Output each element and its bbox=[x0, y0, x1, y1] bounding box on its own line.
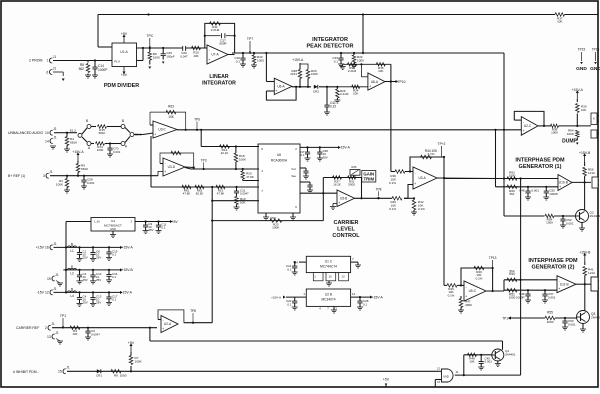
svg-text:-15V-A: -15V-A bbox=[122, 291, 133, 295]
svg-text:25V: 25V bbox=[96, 300, 101, 304]
svg-text:B: B bbox=[122, 119, 124, 123]
svg-text:+15V-A: +15V-A bbox=[372, 295, 384, 299]
svg-text:U8-A: U8-A bbox=[371, 80, 379, 84]
svg-text:# INHIBIT PDM -: # INHIBIT PDM - bbox=[13, 370, 39, 374]
svg-text:MC74HC74: MC74HC74 bbox=[320, 265, 337, 269]
svg-text:13: 13 bbox=[341, 275, 345, 279]
svg-text:2.21M: 2.21M bbox=[348, 69, 357, 73]
svg-text:10K: 10K bbox=[353, 91, 358, 95]
svg-text:0.1%: 0.1% bbox=[389, 181, 396, 185]
svg-text:MC7805ACT: MC7805ACT bbox=[104, 224, 122, 228]
svg-text:+15V: +15V bbox=[36, 246, 45, 250]
svg-text:0.001: 0.001 bbox=[87, 181, 95, 185]
svg-text:C48: C48 bbox=[519, 189, 525, 193]
svg-text:U5-B: U5-B bbox=[340, 196, 347, 200]
svg-text:J1: J1 bbox=[53, 242, 57, 246]
svg-text:0.1%: 0.1% bbox=[418, 207, 425, 211]
svg-text:+: + bbox=[338, 201, 340, 205]
svg-text:INTEGRATOR: INTEGRATOR bbox=[202, 81, 236, 87]
svg-text:+: + bbox=[162, 327, 164, 331]
svg-text:U6: U6 bbox=[277, 153, 281, 157]
svg-text:25V: 25V bbox=[96, 255, 101, 259]
svg-text:1000P: 1000P bbox=[549, 192, 558, 196]
svg-text:GND: GND bbox=[110, 227, 116, 231]
svg-text:16: 16 bbox=[45, 246, 49, 250]
svg-text:+15V-A: +15V-A bbox=[122, 246, 134, 250]
svg-text:0.1%: 0.1% bbox=[428, 152, 435, 156]
svg-text:GAIN: GAIN bbox=[363, 171, 374, 176]
svg-text:25V: 25V bbox=[96, 278, 101, 282]
svg-text:15: 15 bbox=[58, 370, 62, 374]
svg-text:+: + bbox=[559, 185, 561, 189]
svg-text:TP+2: TP+2 bbox=[438, 142, 446, 146]
svg-text:1000: 1000 bbox=[551, 131, 558, 135]
svg-text:J1: J1 bbox=[53, 135, 57, 139]
svg-text:47.8K: 47.8K bbox=[217, 192, 225, 196]
svg-text:1000: 1000 bbox=[546, 221, 553, 225]
svg-text:U5-C: U5-C bbox=[469, 289, 477, 293]
svg-text:1000P: 1000P bbox=[98, 68, 107, 72]
svg-text:+: + bbox=[558, 287, 560, 291]
svg-text:TPC: TPC bbox=[146, 34, 153, 38]
svg-text:U2-A: U2-A bbox=[164, 322, 172, 326]
svg-text:Vcc: Vcc bbox=[291, 167, 296, 171]
svg-text:47.8K: 47.8K bbox=[246, 175, 254, 179]
svg-text:1000: 1000 bbox=[311, 72, 318, 76]
svg-text:DUMP: DUMP bbox=[562, 139, 577, 145]
svg-text:0.1%: 0.1% bbox=[476, 276, 483, 280]
svg-text:2 PROM: 2 PROM bbox=[29, 59, 43, 63]
svg-text:+15V-A: +15V-A bbox=[72, 150, 84, 154]
svg-text:+5V: +5V bbox=[121, 32, 128, 36]
svg-text:10: 10 bbox=[45, 131, 49, 135]
svg-text:681K: 681K bbox=[70, 140, 77, 144]
svg-text:INTERPHASE PDM: INTERPHASE PDM bbox=[528, 258, 578, 264]
svg-text:25V: 25V bbox=[83, 300, 88, 304]
svg-text:2N4401: 2N4401 bbox=[505, 353, 516, 357]
svg-text:0.1: 0.1 bbox=[112, 275, 116, 279]
svg-text:+: + bbox=[208, 58, 210, 62]
svg-text:2N4403: 2N4403 bbox=[591, 316, 600, 320]
svg-text:100pF: 100pF bbox=[166, 54, 174, 58]
svg-text:+15V-A: +15V-A bbox=[271, 296, 281, 300]
svg-text:INTEGRATOR: INTEGRATOR bbox=[312, 37, 348, 43]
svg-text:LINEAR: LINEAR bbox=[209, 74, 229, 80]
svg-text:J1: J1 bbox=[53, 66, 57, 70]
svg-text:GND: GND bbox=[590, 66, 600, 72]
svg-text:4990: 4990 bbox=[465, 303, 472, 307]
svg-text:CARRIER: CARRIER bbox=[333, 220, 358, 226]
svg-text:0.1: 0.1 bbox=[161, 226, 165, 230]
svg-text:0.1%: 0.1% bbox=[389, 207, 396, 211]
svg-text:0.1: 0.1 bbox=[112, 252, 116, 256]
svg-text:U3-A: U3-A bbox=[418, 176, 426, 180]
svg-text:R63: R63 bbox=[168, 105, 174, 109]
svg-text:2N4403: 2N4403 bbox=[590, 214, 600, 218]
svg-text:+5V: +5V bbox=[121, 73, 128, 77]
svg-text:1210: 1210 bbox=[588, 271, 595, 275]
svg-text:16.2K: 16.2K bbox=[333, 183, 341, 187]
svg-text:1000: 1000 bbox=[153, 56, 160, 60]
svg-text:7: 7 bbox=[352, 257, 354, 261]
svg-text:+5V: +5V bbox=[128, 341, 135, 345]
svg-text:1210: 1210 bbox=[588, 171, 595, 175]
svg-text:1000: 1000 bbox=[120, 374, 127, 378]
svg-text:13: 13 bbox=[47, 335, 51, 339]
svg-text:5000: 5000 bbox=[348, 183, 355, 187]
svg-text:1000: 1000 bbox=[547, 320, 554, 324]
svg-text:10K: 10K bbox=[581, 108, 586, 112]
svg-text:+15V-B: +15V-B bbox=[579, 251, 591, 255]
svg-text:2151: 2151 bbox=[290, 72, 297, 76]
svg-text:TP13: TP13 bbox=[489, 256, 497, 260]
svg-text:L4: L4 bbox=[70, 294, 74, 298]
svg-text:0.1%: 0.1% bbox=[448, 293, 455, 297]
svg-text:0.001: 0.001 bbox=[568, 322, 576, 326]
svg-text:R55: R55 bbox=[547, 311, 553, 315]
svg-text:10K: 10K bbox=[72, 332, 77, 336]
svg-text:U3-D: U3-D bbox=[168, 165, 176, 169]
svg-text:TP6: TP6 bbox=[194, 118, 200, 122]
svg-text:1000: 1000 bbox=[257, 59, 264, 63]
svg-text:19: 19 bbox=[47, 277, 51, 281]
svg-text:6: 6 bbox=[46, 70, 48, 74]
svg-text:U4: U4 bbox=[111, 219, 115, 223]
svg-text:PL4: PL4 bbox=[114, 60, 120, 64]
svg-text:U1-A: U1-A bbox=[120, 50, 128, 54]
svg-text:+15V-A: +15V-A bbox=[292, 58, 304, 62]
svg-text:2.21M: 2.21M bbox=[211, 28, 220, 32]
svg-text:GND: GND bbox=[576, 66, 587, 72]
svg-text:0.1: 0.1 bbox=[363, 302, 367, 306]
svg-text:-15V-A: -15V-A bbox=[340, 146, 351, 150]
svg-text:22.1K: 22.1K bbox=[221, 151, 229, 155]
svg-text:14: 14 bbox=[45, 139, 49, 143]
svg-text:2.21M: 2.21M bbox=[340, 92, 349, 96]
svg-text:+: + bbox=[465, 295, 467, 299]
svg-text:U2 B: U2 B bbox=[325, 293, 332, 297]
svg-text:+15V-A: +15V-A bbox=[572, 88, 584, 92]
svg-text:B: B bbox=[71, 264, 73, 268]
svg-text:U2-C: U2-C bbox=[524, 124, 532, 128]
svg-text:L2: L2 bbox=[70, 272, 74, 276]
svg-text:10K: 10K bbox=[469, 360, 474, 364]
svg-text:R25: R25 bbox=[352, 165, 357, 169]
svg-text:10K: 10K bbox=[168, 115, 174, 119]
svg-text:12: 12 bbox=[45, 291, 49, 295]
svg-text:TP7: TP7 bbox=[247, 37, 253, 41]
svg-text:+: + bbox=[275, 89, 277, 93]
svg-text:0.001: 0.001 bbox=[532, 189, 540, 193]
svg-text:B: B bbox=[86, 119, 88, 123]
svg-text:J1: J1 bbox=[49, 170, 53, 174]
svg-text:TP15: TP15 bbox=[578, 48, 586, 52]
svg-text:562: 562 bbox=[510, 269, 515, 273]
svg-text:0.1: 0.1 bbox=[112, 297, 116, 301]
svg-text:PDM DIVIDER: PDM DIVIDER bbox=[104, 83, 139, 89]
svg-text:0.1: 0.1 bbox=[287, 302, 291, 306]
svg-text:CONTROL: CONTROL bbox=[332, 233, 360, 239]
svg-text:10K: 10K bbox=[557, 20, 562, 24]
svg-text:7: 7 bbox=[46, 59, 48, 63]
svg-text:47.8K: 47.8K bbox=[183, 192, 191, 196]
svg-text:K: K bbox=[593, 117, 595, 121]
svg-text:GENERATOR (2): GENERATOR (2) bbox=[532, 265, 575, 271]
svg-text:3: 3 bbox=[43, 174, 45, 178]
svg-text:U3-C: U3-C bbox=[158, 128, 166, 132]
svg-text:CR2: CR2 bbox=[313, 89, 319, 93]
svg-text:TP1: TP1 bbox=[60, 314, 66, 318]
svg-text:100K: 100K bbox=[239, 158, 246, 162]
svg-text:CARRIER REF: CARRIER REF bbox=[16, 326, 39, 330]
svg-text:PEAK DETECTOR: PEAK DETECTOR bbox=[307, 44, 354, 50]
svg-text:TP3: TP3 bbox=[201, 159, 207, 163]
svg-text:0.001: 0.001 bbox=[566, 221, 574, 225]
svg-text:500P: 500P bbox=[219, 42, 226, 46]
svg-text:TP16: TP16 bbox=[592, 48, 600, 52]
svg-text:J1: J1 bbox=[53, 55, 57, 59]
svg-text:+: + bbox=[164, 170, 166, 174]
svg-text:-15V: -15V bbox=[37, 291, 45, 295]
svg-text:U7-A: U7-A bbox=[211, 53, 219, 57]
svg-text:1000: 1000 bbox=[357, 59, 364, 63]
svg-text:1000: 1000 bbox=[97, 148, 104, 152]
svg-text:J1: J1 bbox=[53, 287, 57, 291]
svg-text:MC34074: MC34074 bbox=[321, 298, 335, 302]
svg-text:CR1: CR1 bbox=[96, 374, 102, 378]
svg-text:J1: J1 bbox=[51, 322, 55, 326]
svg-text:+15V-B: +15V-B bbox=[122, 268, 134, 272]
svg-text:E1.2: E1.2 bbox=[70, 129, 77, 133]
svg-text:TRIM: TRIM bbox=[364, 177, 375, 182]
svg-text:L1: L1 bbox=[70, 249, 74, 253]
svg-text:J1: J1 bbox=[55, 273, 59, 277]
svg-text:10K: 10K bbox=[193, 54, 198, 58]
svg-text:100K: 100K bbox=[56, 182, 63, 186]
svg-text:B: B bbox=[71, 242, 73, 246]
svg-text:J1: J1 bbox=[66, 366, 70, 370]
svg-text:562: 562 bbox=[79, 67, 85, 71]
svg-text:U1 C: U1 C bbox=[325, 260, 333, 264]
svg-text:100K: 100K bbox=[272, 226, 280, 230]
svg-text:B: B bbox=[71, 287, 73, 291]
svg-text:UNBALANCED AUDIO: UNBALANCED AUDIO bbox=[8, 131, 43, 135]
svg-text:B+ REF (1): B+ REF (1) bbox=[8, 174, 25, 178]
svg-text:+: + bbox=[414, 182, 416, 186]
svg-text:RCA3000A: RCA3000A bbox=[271, 159, 288, 163]
svg-text:0.1: 0.1 bbox=[334, 60, 339, 64]
svg-text:TP8: TP8 bbox=[376, 187, 382, 191]
svg-text:U11-B: U11-B bbox=[560, 282, 569, 286]
svg-text:INTERPHASE PDM: INTERPHASE PDM bbox=[515, 158, 565, 164]
svg-text:0.001: 0.001 bbox=[548, 295, 556, 299]
svg-text:1000: 1000 bbox=[509, 295, 516, 299]
svg-text:LEVEL: LEVEL bbox=[337, 227, 355, 233]
svg-text:0.1: 0.1 bbox=[236, 60, 241, 64]
svg-text:1_IN: 1_IN bbox=[94, 220, 100, 224]
svg-text:0.1: 0.1 bbox=[300, 153, 304, 157]
svg-text:TP10: TP10 bbox=[398, 80, 406, 84]
svg-text:0.0047: 0.0047 bbox=[91, 332, 100, 336]
svg-text:100K: 100K bbox=[135, 359, 142, 363]
svg-text:J1: J1 bbox=[55, 331, 59, 335]
svg-text:Vee: Vee bbox=[291, 174, 296, 178]
svg-text:+: + bbox=[522, 129, 524, 133]
svg-text:TP8: TP8 bbox=[190, 309, 196, 313]
svg-text:681K: 681K bbox=[99, 131, 106, 135]
svg-text:GENERATOR (1): GENERATOR (1) bbox=[519, 164, 562, 170]
svg-text:681K: 681K bbox=[81, 167, 88, 171]
svg-text:1000: 1000 bbox=[509, 174, 516, 178]
svg-text:+5V: +5V bbox=[383, 378, 390, 382]
svg-text:+: + bbox=[369, 84, 371, 88]
svg-text:562: 562 bbox=[510, 192, 515, 196]
svg-text:0.047: 0.047 bbox=[180, 54, 188, 58]
svg-text:+5V: +5V bbox=[172, 220, 179, 224]
svg-text:25V: 25V bbox=[83, 278, 88, 282]
svg-text:35V: 35V bbox=[148, 228, 153, 232]
svg-text:R6: R6 bbox=[114, 374, 118, 378]
svg-text:2: 2 bbox=[45, 326, 47, 330]
svg-text:1000: 1000 bbox=[567, 132, 574, 136]
svg-text:35V: 35V bbox=[323, 155, 328, 159]
svg-text:10K: 10K bbox=[378, 69, 383, 73]
svg-text:0.001: 0.001 bbox=[485, 360, 493, 364]
svg-text:0.0047: 0.0047 bbox=[240, 192, 249, 196]
svg-text:J1: J1 bbox=[53, 127, 57, 131]
svg-text:+: + bbox=[154, 132, 156, 136]
svg-text:10: 10 bbox=[328, 275, 332, 279]
svg-text:0.22: 0.22 bbox=[330, 105, 336, 109]
svg-text:U6-A: U6-A bbox=[277, 85, 285, 89]
svg-text:25V: 25V bbox=[83, 255, 88, 259]
svg-text:0.001: 0.001 bbox=[113, 150, 121, 154]
svg-text:U9D: U9D bbox=[443, 374, 449, 378]
svg-text:+15V-B: +15V-B bbox=[579, 151, 591, 155]
svg-text:82.5K: 82.5K bbox=[196, 192, 204, 196]
svg-text:11: 11 bbox=[352, 292, 355, 296]
svg-text:0.1: 0.1 bbox=[287, 267, 291, 271]
